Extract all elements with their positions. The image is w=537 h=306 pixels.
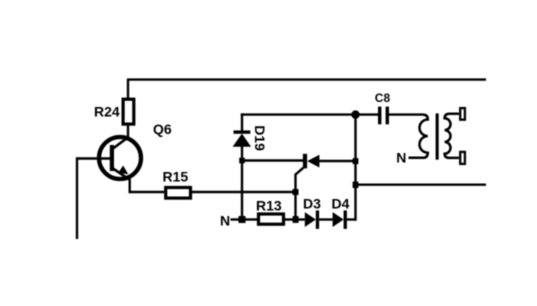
wire D3 to D4 [319,218,333,220]
transformer core [436,113,439,159]
node N junction [239,216,246,223]
diode D19 (cathode bar up) [233,130,252,146]
wire bottom rail [356,183,487,185]
wire D19 anode to junction [241,147,243,161]
wire SCR gate [296,168,304,220]
wire N stub [231,218,243,220]
wire C8 to transformer primary [389,113,423,115]
svg-text:N: N [220,213,230,229]
wire R15 to gate node [191,191,296,193]
wire D4 to right bus corner [347,218,356,220]
svg-text:D3: D3 [303,196,321,212]
wire Q6 base lead [77,157,110,159]
resistor R13 [259,214,284,224]
wire Q6 emitter down [128,179,130,192]
wire thyristor anode to right bus [319,160,356,162]
svg-text:R24: R24 [94,104,120,120]
wire right vertical bus [354,114,356,221]
wire top-left drop to R24 [127,79,129,100]
capacitor C8 [378,107,389,125]
wire base left tail down [76,157,78,239]
thyristor (anode right, cathode bar left) [303,154,320,169]
transformer T1 primary winding [409,115,428,158]
node D19 junction [239,158,245,164]
wire R24 to Q6 collector [127,125,129,138]
wire top branch (D19 top to C8) [241,113,378,115]
diode D4 [333,210,347,229]
svg-text:C8: C8 [375,91,391,105]
transformer secondary winding [445,114,459,158]
node R13/D3 junction [293,216,299,223]
resistor R15 [166,188,191,199]
node bus/bottom rail junction [353,182,359,188]
wire D19 vertical upper [241,113,243,131]
wire junction to thyristor cathode [242,159,303,161]
svg-text:N: N [396,150,406,166]
node gate junction [293,189,299,195]
diode D3 [305,210,319,229]
svg-text:D19: D19 [252,125,268,151]
svg-text:R15: R15 [163,169,189,185]
wire R13 to D3 node [285,218,296,220]
wire vertical D19 node to N node [241,161,243,220]
transistor Q6 [99,137,141,180]
wire emitter to R15 [129,191,165,193]
svg-text:Q6: Q6 [153,121,172,137]
node bus/C8 junction [351,110,359,118]
wire top rail [128,78,486,80]
wire N node to R13 [242,218,257,220]
node bus/thyristor junction [353,158,359,164]
svg-text:D4: D4 [332,196,350,212]
svg-text:R13: R13 [256,197,282,213]
terminal pin top [460,108,465,120]
terminal pin bottom [460,152,465,164]
wire node to D3 [296,218,305,220]
resistor R24 [123,99,134,124]
